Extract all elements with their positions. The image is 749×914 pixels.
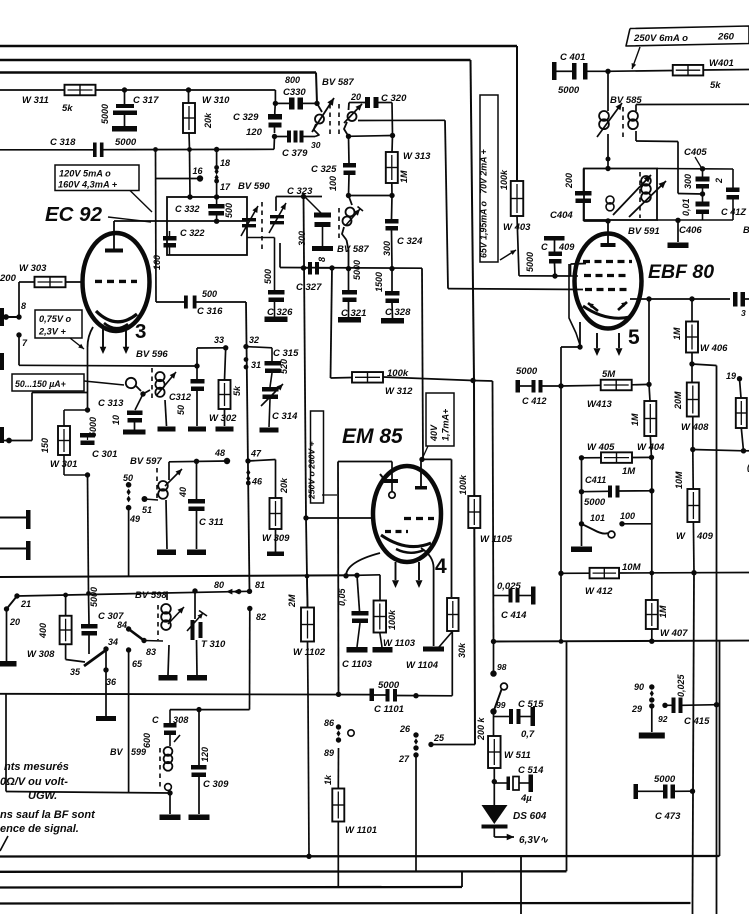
wire bottom bus y887: [0, 886, 462, 889]
svg-text:29: 29: [631, 704, 642, 714]
capacitor C322 (160): [163, 236, 177, 241]
svg-text:89: 89: [324, 748, 334, 758]
EM85 heater pins: [395, 562, 397, 580]
svg-text:50: 50: [123, 473, 133, 483]
svg-text:EBF 80: EBF 80: [648, 261, 714, 283]
wire EM85 grid circle chain: [391, 462, 393, 493]
svg-text:10M: 10M: [622, 562, 642, 573]
wire BV587b bottom to C321 node: [347, 240, 349, 269]
node 32: [243, 344, 248, 349]
svg-text:W 408: W 408: [681, 422, 709, 433]
wire y365 to x716: [692, 364, 717, 366]
wire y196 row (C323): [276, 196, 322, 198]
shield box BV591: [584, 169, 657, 221]
svg-text:0,75V o: 0,75V o: [39, 314, 72, 324]
svg-text:20: 20: [350, 92, 361, 102]
svg-text:DS 604: DS 604: [513, 811, 547, 822]
resistor W308 (400): [63, 593, 68, 598]
svg-text:1,7mA+: 1,7mA+: [441, 408, 451, 441]
pointer from 0,75V box: [70, 338, 84, 349]
inductor BV596: [151, 368, 153, 402]
capacitor C406 (0,01): [696, 202, 710, 207]
capacitor C401 (5000): [552, 62, 557, 80]
EM85 right lead: [421, 548, 434, 646]
capacitor C324 (300): [385, 219, 399, 224]
resistor W309 (20k): [270, 498, 282, 529]
wire left x581 between rows: [581, 458, 583, 492]
shield box BV590: [167, 197, 247, 255]
wire cathode chain x87.5: [87, 347, 89, 410]
svg-text:W 1105: W 1105: [480, 534, 513, 545]
node C311 top: [194, 459, 199, 464]
svg-text:82: 82: [256, 612, 266, 622]
capacitor C312 (50): [196, 366, 198, 379]
svg-text:C404: C404: [550, 210, 573, 221]
svg-text:5k: 5k: [232, 385, 242, 396]
resistor W1101 (1k): [337, 748, 339, 789]
wire grid row2 into tube: [571, 275, 579, 277]
svg-text:19: 19: [726, 371, 736, 381]
wire plate row y71: [608, 70, 673, 73]
wire bus B drop to W1105: [471, 60, 475, 381]
capacitor C414 (0,025): [493, 595, 509, 597]
switch 99 contact: [501, 683, 508, 690]
svg-text:1M: 1M: [630, 413, 640, 426]
inductor BV585: [607, 71, 609, 111]
wire C318 line y150: [0, 149, 93, 151]
wire W413 row y385: [561, 384, 601, 387]
capacitor C328 (1500): [391, 269, 393, 291]
wire stub x571: [570, 264, 572, 276]
svg-text:20M: 20M: [673, 391, 683, 410]
wire x521 bottom stub: [520, 856, 522, 914]
terminal 36 chain: [105, 649, 107, 670]
wire grid row3 y288: [448, 288, 583, 291]
node C329 bottom: [272, 134, 277, 139]
node C325 bottom: [346, 193, 351, 198]
resistor W413 (5M): [601, 380, 632, 391]
svg-text:1M: 1M: [622, 466, 636, 477]
capacitor C330 (800): [275, 102, 289, 104]
wire top bus B: [0, 59, 471, 61]
resistor W310: [188, 90, 190, 103]
svg-text:ence de signal.: ence de signal.: [0, 823, 79, 835]
node W313 bottom: [389, 193, 394, 198]
svg-text:16: 16: [193, 166, 204, 176]
capacitor C323 (300): [305, 197, 321, 213]
wire grid row y276: [519, 275, 571, 277]
svg-text:5000: 5000: [352, 260, 362, 280]
svg-text:1M: 1M: [399, 170, 409, 183]
svg-text:C 514: C 514: [518, 765, 544, 776]
EM85 grid ring: [389, 492, 395, 498]
EC92 label pointer: [108, 217, 151, 222]
BV587 right coil: [348, 103, 351, 111]
wire y641 row: [494, 640, 749, 643]
svg-text:C 309: C 309: [203, 779, 229, 790]
EBF80 diode plates: [588, 303, 598, 311]
node box top W310: [187, 194, 192, 199]
capacitor C409 (5000): [544, 236, 565, 241]
ground BV599: [169, 793, 171, 814]
wire bottom bus y871: [0, 870, 567, 873]
EC92 anode bar: [105, 249, 123, 253]
svg-text:W 412: W 412: [585, 586, 613, 597]
svg-text:49: 49: [129, 514, 140, 524]
svg-text:33: 33: [214, 335, 224, 345]
svg-text:300: 300: [297, 231, 307, 246]
svg-text:C 329: C 329: [233, 112, 259, 123]
resistor W406 (1M): [691, 299, 693, 322]
svg-text:2: 2: [714, 178, 724, 184]
svg-text:160V 4,3mA +: 160V 4,3mA +: [58, 180, 118, 190]
capacitor C1103 (0,05): [357, 575, 360, 611]
svg-text:0,7: 0,7: [521, 729, 535, 740]
svg-text:8: 8: [317, 257, 327, 262]
svg-text:5M: 5M: [602, 369, 616, 380]
node cathode x88: [86, 591, 91, 596]
wire y450 row: [690, 447, 695, 452]
svg-text:409: 409: [696, 531, 714, 542]
svg-text:W 310: W 310: [202, 95, 230, 106]
svg-text:C 317: C 317: [133, 95, 159, 106]
switch arm 35/34: [84, 650, 106, 666]
BV590 trimmer 2: [270, 215, 284, 218]
svg-text:0Ω/V ou volt-: 0Ω/V ou volt-: [0, 776, 68, 788]
resistor W1102 (2M): [306, 576, 309, 607]
svg-text:EC 92: EC 92: [45, 203, 103, 226]
BV590 core dashes: [261, 202, 263, 250]
svg-text:W 309: W 309: [262, 533, 290, 544]
svg-text:W 1102: W 1102: [293, 647, 326, 658]
pointer 250V box: [632, 47, 640, 69]
terminal 51: [142, 496, 148, 502]
label box 65V rotated: [480, 95, 498, 262]
pointer from 120V box: [130, 191, 152, 213]
svg-text:W401: W401: [709, 58, 734, 69]
wire bottom bus y903: [0, 902, 691, 905]
wire W311 drop to C330: [274, 90, 276, 103]
svg-text:5000: 5000: [516, 366, 538, 377]
trimmer T310: [192, 588, 197, 593]
wire bus C drop to C330 node: [316, 73, 317, 104]
capacitor C325 (100): [348, 136, 351, 163]
tick bottom left: [0, 836, 8, 851]
svg-text:2M: 2M: [287, 594, 297, 608]
capacitor C473 (5000): [634, 784, 639, 799]
svg-text:C312: C312: [169, 392, 192, 402]
svg-text:50...150 µA+: 50...150 µA+: [15, 379, 66, 389]
resistor W408 (20M): [691, 364, 693, 383]
svg-text:65: 65: [132, 659, 143, 669]
wire bus A drop to W403: [516, 46, 518, 181]
left edge stub y434: [0, 427, 4, 443]
stub capacitor left y517: [0, 517, 26, 519]
terminal 98: [493, 642, 495, 674]
EBF80 heater pins: [596, 333, 598, 348]
capacitor C307 (5000): [88, 594, 91, 625]
svg-text:W 308: W 308: [27, 649, 55, 660]
resistor W404 (1M): [649, 384, 650, 401]
svg-text:4µ: 4µ: [520, 793, 532, 804]
terminal 21/20: [14, 593, 19, 598]
svg-text:5000: 5000: [100, 104, 110, 124]
stub capacitor left y548: [0, 548, 26, 550]
wire C406 bottom row: [657, 219, 733, 221]
svg-text:B: B: [743, 225, 749, 235]
wire 48 row y461: [169, 460, 227, 463]
meter loop: [126, 378, 136, 388]
svg-text:W 302: W 302: [209, 413, 237, 424]
node C415 right: [714, 702, 719, 707]
resistor W311: [65, 85, 96, 96]
node C309 top: [196, 707, 201, 712]
svg-text:3: 3: [741, 308, 746, 318]
svg-text:C 314: C 314: [272, 411, 298, 422]
svg-text:83: 83: [146, 647, 156, 657]
node y299 x692: [689, 296, 694, 301]
wire 20pF cap row y102: [349, 102, 365, 104]
svg-text:C 332: C 332: [175, 204, 200, 214]
wire screen node right: [422, 458, 452, 460]
wire bus to W1103: [357, 574, 380, 577]
svg-text:51: 51: [142, 505, 152, 515]
wire BV585 left bottom: [607, 134, 609, 159]
svg-text:84: 84: [117, 620, 127, 630]
svg-text:40V: 40V: [429, 424, 439, 442]
svg-text:nts mesurés: nts mesurés: [4, 761, 69, 773]
wire 82 corner row y709: [170, 709, 250, 711]
svg-text:1M: 1M: [672, 327, 682, 340]
svg-text:500: 500: [202, 289, 217, 299]
capacitor C321 (5000): [348, 269, 350, 290]
svg-text:3: 3: [135, 320, 146, 343]
ground BV596: [158, 427, 176, 432]
node wire E W310: [187, 147, 192, 152]
wire cathode chain down: [88, 475, 89, 594]
terminal 82: [247, 606, 252, 611]
wire 32 to C315: [246, 347, 272, 348]
terminal 101/100: [579, 521, 584, 526]
capacitor C326 (500): [268, 290, 285, 295]
wire riser x566: [566, 642, 568, 872]
resistor W1105 (100k): [468, 496, 480, 528]
node W412 right x694: [691, 570, 696, 575]
terminal 84/83: [126, 626, 131, 631]
wire x493 drop: [493, 381, 494, 642]
inductor BV598: [157, 605, 159, 640]
svg-text:20: 20: [9, 617, 20, 627]
terminal 92 + C415: [662, 703, 667, 708]
resistor W1103 (100k): [374, 601, 387, 633]
node box top 17: [214, 194, 219, 199]
svg-text:2,3V +: 2,3V +: [38, 327, 66, 337]
node C473 right: [690, 789, 695, 794]
svg-text:W 1104: W 1104: [406, 660, 439, 671]
svg-text:C 327: C 327: [296, 282, 322, 293]
svg-text:0,025: 0,025: [497, 581, 521, 592]
transformer BV587b coil: [349, 196, 353, 206]
svg-text:409: 409: [558, 242, 575, 252]
wire 7 down and right y365: [18, 335, 20, 365]
svg-text:800: 800: [285, 75, 300, 85]
svg-text:300: 300: [382, 241, 392, 256]
resistor W412 (10M): [590, 568, 620, 579]
wire C329 top to C330 node: [274, 101, 277, 112]
wire C320 to W313 drop: [379, 102, 393, 104]
capacitor C405 (300): [696, 177, 710, 182]
svg-text:36: 36: [106, 677, 117, 687]
wire stub to x493: [473, 380, 493, 383]
wire EBF80 anode row y299: [630, 298, 730, 300]
node x304 top: [301, 194, 306, 199]
label box 250V 6mA: [626, 26, 749, 46]
ground C406: [677, 220, 679, 242]
node W301 top: [85, 407, 90, 412]
svg-text:120V 5mA o: 120V 5mA o: [59, 169, 111, 179]
wire y366 to C312 node: [194, 363, 199, 368]
wire EC92 top row y221: [114, 220, 246, 222]
capacitor C404 (200): [583, 169, 585, 192]
wire top bus A: [0, 45, 517, 47]
pointer 40V box: [423, 446, 428, 457]
svg-text:W413: W413: [587, 399, 613, 410]
svg-text:98: 98: [497, 662, 507, 672]
wire main bus y576: [0, 575, 357, 577]
node W301 bottom: [85, 472, 90, 477]
EM85 screen bar: [415, 486, 427, 490]
wire bottom bus y856: [0, 855, 720, 858]
BV587b dashes: [338, 208, 340, 242]
wire W412 row y573: [558, 571, 563, 576]
svg-text:400: 400: [38, 623, 48, 639]
trimmer C314: [262, 387, 279, 392]
svg-text:C 515: C 515: [518, 699, 544, 710]
inductor BV599: [159, 748, 161, 790]
wire y792 row: [6, 792, 170, 794]
svg-text:30: 30: [311, 140, 321, 150]
resistor W303 (200): [35, 277, 66, 288]
wire C316 row y302: [155, 150, 158, 303]
resistor W312 (100k): [352, 372, 383, 383]
wire x649 down from anode: [648, 299, 650, 384]
svg-text:47: 47: [250, 449, 262, 459]
node bus x357: [354, 573, 359, 578]
node W310 top: [186, 87, 191, 92]
EBF80 bottom arc: [583, 306, 630, 318]
svg-text:C 326: C 326: [267, 307, 293, 318]
svg-text:W 301: W 301: [50, 459, 77, 470]
svg-text:500: 500: [224, 203, 234, 218]
svg-text:C 379: C 379: [282, 148, 308, 159]
BV587 tuning arrow: [312, 98, 334, 132]
svg-text:C 328: C 328: [385, 307, 411, 318]
node C409 bottom: [552, 273, 557, 278]
BV591 arrows: [613, 175, 651, 215]
wire C405 top row: [657, 168, 703, 170]
capacitor C412 (5000): [516, 380, 521, 393]
pointer 250V box: [322, 494, 337, 496]
wire W303 to terminal 8: [19, 281, 35, 283]
node BV599 bottom: [167, 790, 172, 795]
svg-text:101: 101: [590, 513, 605, 523]
svg-text:80: 80: [214, 580, 224, 590]
svg-text:48: 48: [214, 448, 225, 458]
left edge stub y365: [0, 353, 4, 370]
wire x692 long: [693, 573, 695, 903]
svg-text:C 322: C 322: [180, 228, 205, 238]
node y641 x493: [491, 639, 496, 644]
svg-text:C 315: C 315: [273, 348, 299, 359]
svg-text:120: 120: [246, 127, 263, 138]
EC92 cathode lead: [88, 327, 94, 347]
wire y268 left riser: [279, 243, 281, 268]
wire BV585 right bottom to C406 node: [636, 140, 678, 143]
EM85 grid dashes: [404, 517, 434, 520]
wire W310 to BV590 box: [189, 150, 192, 198]
svg-text:C 325: C 325: [311, 164, 337, 175]
svg-text:W 1103: W 1103: [383, 638, 416, 649]
svg-text:0,025: 0,025: [676, 673, 686, 697]
BV587 core dashed lines: [329, 104, 331, 137]
svg-text:25: 25: [433, 733, 445, 743]
node C330 right / bus C node: [314, 101, 319, 106]
wire riser y856 to y641: [719, 642, 721, 857]
resistor W302 (5k): [225, 348, 226, 380]
svg-text:5: 5: [628, 326, 640, 349]
svg-text:21: 21: [20, 599, 31, 609]
svg-text:200: 200: [0, 273, 17, 284]
svg-text:C411: C411: [585, 475, 606, 485]
node C1101 right: [413, 693, 418, 698]
tetrode EBF80 envelope: [575, 234, 642, 329]
tube EM85 envelope: [373, 466, 441, 562]
svg-text:100k: 100k: [458, 474, 468, 495]
wire riser x462: [461, 871, 463, 887]
svg-text:120: 120: [200, 747, 210, 762]
svg-text:160: 160: [152, 255, 162, 270]
svg-text:W 511: W 511: [504, 750, 531, 761]
BV590 trimmer 1: [242, 218, 256, 221]
svg-text:C330: C330: [283, 87, 306, 98]
node EM85 screen top: [419, 457, 424, 462]
wire W312 row y378: [331, 377, 353, 380]
capacitor C308 (600): [169, 710, 171, 723]
label box 0,75V / 2,3V: [35, 310, 82, 338]
diode DS604: [493, 782, 495, 805]
wire W403 bottom: [517, 216, 519, 276]
node C317 top: [122, 87, 127, 92]
svg-text:C 318: C 318: [50, 137, 76, 148]
svg-text:C: C: [152, 715, 159, 725]
svg-text:31: 31: [251, 360, 261, 370]
svg-text:ns sauf la BF sont: ns sauf la BF sont: [0, 809, 96, 821]
svg-text:5k: 5k: [62, 103, 73, 114]
svg-text:BV 590: BV 590: [238, 181, 270, 192]
svg-text:5000: 5000: [115, 137, 137, 148]
svg-text:BV 597: BV 597: [130, 456, 162, 467]
svg-text:86: 86: [324, 718, 335, 728]
svg-text:90: 90: [634, 682, 644, 692]
capacitor C514 (4µ): [494, 782, 506, 784]
resistor W405 (1M): [601, 452, 632, 463]
node C328 top: [389, 266, 394, 271]
node C514 junction: [492, 779, 497, 784]
svg-text:81: 81: [255, 580, 265, 590]
svg-text:520: 520: [279, 359, 289, 374]
EM85 inner arc: [381, 535, 431, 547]
capacitor C327 (8): [304, 267, 309, 269]
